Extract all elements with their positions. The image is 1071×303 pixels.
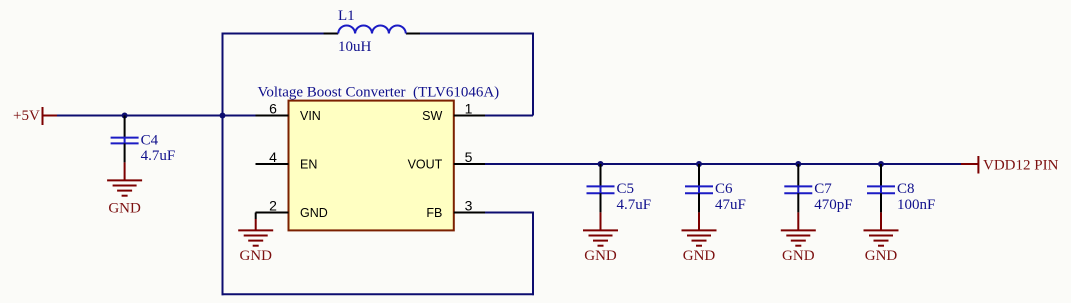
- svg-text:FB: FB: [426, 206, 442, 220]
- capacitor C4: [111, 116, 176, 181]
- pin 3 FB: [426, 198, 485, 220]
- svg-text:C4: C4: [141, 132, 159, 148]
- wire FB loop: [222, 212, 535, 296]
- svg-text:GND: GND: [782, 248, 815, 264]
- svg-text:GND: GND: [865, 248, 898, 264]
- svg-text:C5: C5: [617, 181, 635, 197]
- node VIN junction: [220, 113, 226, 119]
- wire VOUT rail: [485, 163, 961, 165]
- svg-text:GND: GND: [584, 248, 617, 264]
- svg-text:Voltage Boost Converter (TLV6: Voltage Boost Converter (TLV61046A): [258, 85, 500, 101]
- ground C5: [583, 230, 618, 264]
- power port VDD12 PIN: [961, 156, 1059, 174]
- svg-text:C8: C8: [897, 181, 915, 197]
- svg-text:3: 3: [465, 198, 473, 214]
- wire L1 to SW corner: [420, 33, 534, 116]
- capacitor C7: [784, 164, 852, 230]
- wire left vertical (VIN to top and bottom loop): [222, 33, 224, 296]
- capacitor C8: [867, 164, 935, 230]
- pin 1 SW: [422, 101, 485, 123]
- svg-text:L1: L1: [338, 8, 355, 24]
- svg-text:C7: C7: [814, 181, 832, 197]
- pin 4 EN: [256, 149, 318, 171]
- ground C4: [107, 180, 142, 216]
- svg-text:GND: GND: [683, 248, 716, 264]
- svg-text:4.7uF: 4.7uF: [141, 148, 176, 164]
- svg-text:2: 2: [269, 198, 277, 214]
- svg-text:4.7uF: 4.7uF: [617, 197, 652, 213]
- node C5 junction: [598, 161, 604, 167]
- capacitor C5: [587, 164, 652, 230]
- svg-text:SW: SW: [422, 109, 442, 123]
- pin 6 VIN: [256, 101, 321, 123]
- ground C6: [682, 230, 717, 264]
- ground C7: [781, 230, 816, 264]
- node C4 junction: [122, 113, 128, 119]
- svg-text:4: 4: [269, 149, 277, 165]
- svg-text:GND: GND: [239, 248, 272, 264]
- svg-text:VOUT: VOUT: [408, 157, 443, 171]
- svg-text:10uH: 10uH: [338, 39, 372, 55]
- inductor L1: [324, 8, 421, 55]
- op-amp U1 body (TLV61046A): [258, 85, 500, 231]
- svg-text:EN: EN: [300, 157, 317, 171]
- svg-text:47uF: 47uF: [715, 197, 746, 213]
- svg-text:GND: GND: [108, 201, 141, 217]
- node C8 junction: [878, 161, 884, 167]
- svg-text:GND: GND: [300, 206, 328, 220]
- power port +5V: [13, 107, 57, 125]
- svg-text:6: 6: [269, 101, 277, 117]
- svg-text:+5V: +5V: [13, 108, 40, 124]
- svg-text:470pF: 470pF: [814, 197, 852, 213]
- node C7 junction: [795, 161, 801, 167]
- ground C8: [864, 230, 899, 264]
- pin 5 VOUT: [408, 149, 485, 171]
- svg-text:100nF: 100nF: [897, 197, 935, 213]
- svg-text:C6: C6: [715, 181, 733, 197]
- svg-text:VDD12 PIN: VDD12 PIN: [983, 157, 1059, 173]
- ground pin2: [238, 213, 273, 265]
- node C6 junction: [696, 161, 702, 167]
- svg-text:1: 1: [465, 101, 473, 117]
- svg-text:VIN: VIN: [300, 109, 321, 123]
- pin 2 GND: [256, 164, 328, 220]
- svg-text:5: 5: [465, 149, 473, 165]
- capacitor C6: [685, 164, 746, 230]
- wire +5V to VIN: [57, 115, 258, 117]
- wire top left to L1: [222, 33, 325, 35]
